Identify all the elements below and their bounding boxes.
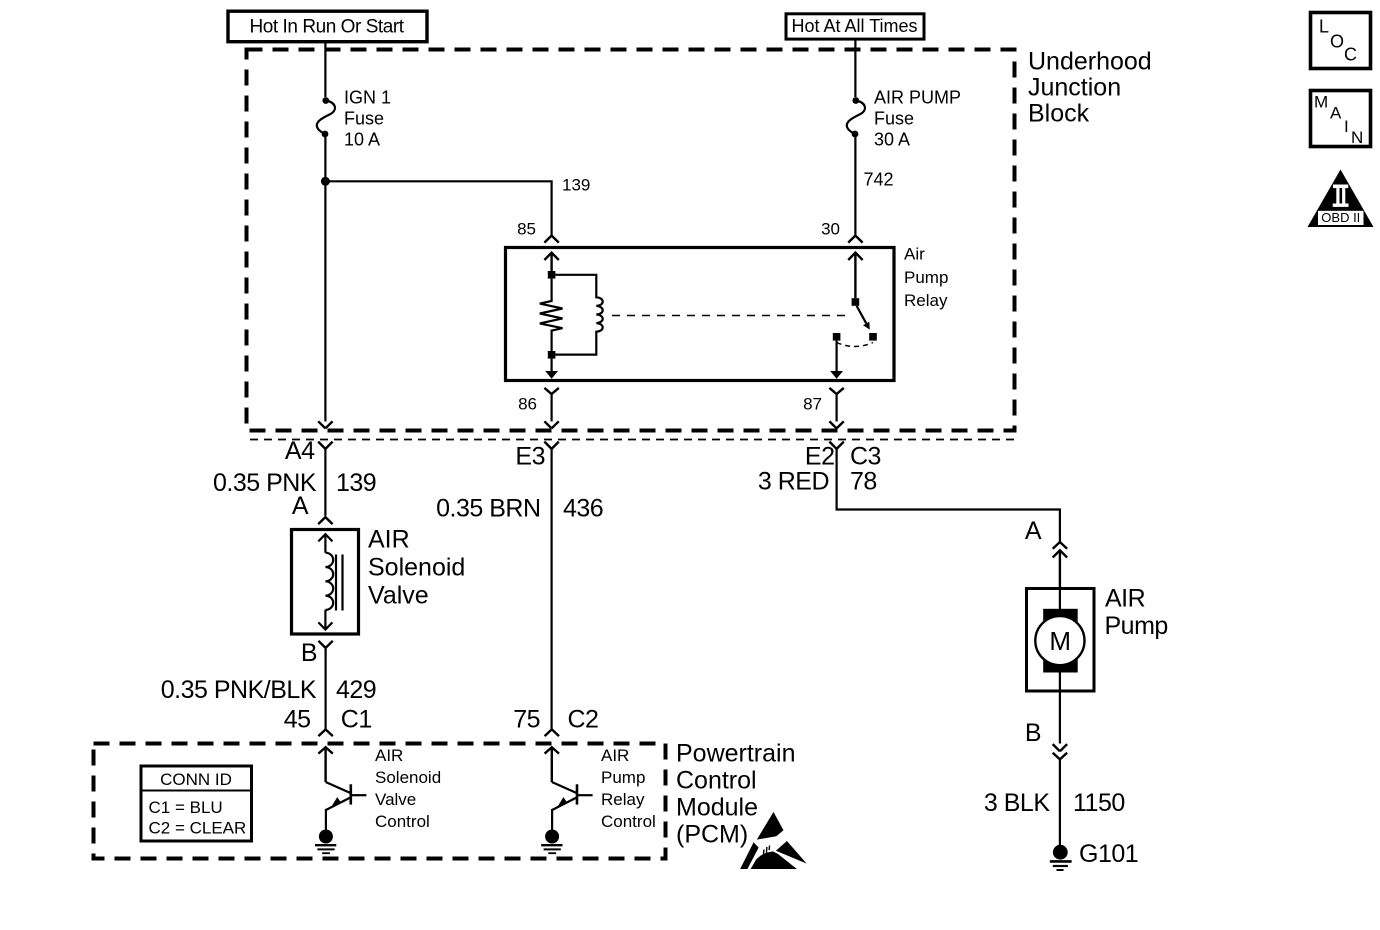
pump A female connector bbox=[1053, 542, 1067, 549]
wire 87 to junction block edge bbox=[835, 394, 837, 422]
relay switch contact node right bbox=[869, 333, 877, 341]
wire 3 RED 78 from E2 to AIR Pump A bbox=[837, 449, 1060, 542]
svg-text:Control: Control bbox=[375, 812, 430, 831]
svg-text:AIR: AIR bbox=[601, 746, 629, 765]
wire 86 to junction block edge bbox=[550, 394, 552, 422]
svg-text:AIR PUMP: AIR PUMP bbox=[874, 88, 961, 108]
svg-text:Powertrain: Powertrain bbox=[676, 740, 796, 768]
svg-text:45: 45 bbox=[284, 706, 311, 734]
svg-text:IGN 1: IGN 1 bbox=[344, 88, 391, 108]
wire from Hot In Run Or Start to IGN 1 fuse bbox=[324, 42, 326, 97]
svg-text:Relay: Relay bbox=[601, 790, 645, 809]
connector C dashed line at junction block bottom bbox=[250, 439, 1014, 441]
svg-text:75: 75 bbox=[513, 706, 540, 734]
terminal E2 female connector bbox=[829, 442, 843, 449]
wire pump B bbox=[1059, 691, 1061, 744]
svg-text:436: 436 bbox=[563, 494, 603, 522]
svg-text:742: 742 bbox=[864, 170, 894, 190]
relay coil winding bbox=[555, 275, 602, 355]
relay switch armature bbox=[857, 306, 870, 330]
wire circuit 742 from fuse to relay terminal 30 bbox=[854, 137, 856, 235]
Air Pump Relay box bbox=[506, 248, 895, 381]
motor M symbol bbox=[1035, 590, 1084, 690]
Powertrain Control Module (PCM) label bbox=[676, 740, 796, 849]
svg-text:Pump: Pump bbox=[601, 768, 645, 787]
svg-text:87: 87 bbox=[803, 395, 822, 414]
svg-text:429: 429 bbox=[336, 676, 376, 704]
svg-text:Module: Module bbox=[676, 794, 758, 822]
svg-text:Pump: Pump bbox=[904, 268, 948, 287]
wire 0.35 PNK/BLK 429 bbox=[325, 648, 327, 729]
svg-text:A: A bbox=[1330, 104, 1342, 123]
relay coil node top bbox=[548, 271, 556, 279]
svg-text:Valve: Valve bbox=[368, 582, 429, 610]
ground at driver Q1 bbox=[315, 830, 336, 854]
svg-text:CONN ID: CONN ID bbox=[160, 770, 232, 789]
terminal 86 female connector bbox=[544, 388, 558, 394]
arrow through junction block border at E2 bbox=[829, 421, 843, 428]
svg-text:78: 78 bbox=[850, 468, 877, 496]
svg-text:B: B bbox=[301, 639, 317, 667]
svg-text:0.35 BRN: 0.35 BRN bbox=[436, 494, 540, 522]
svg-text:86: 86 bbox=[518, 395, 537, 414]
terminal E3 female connector bbox=[544, 442, 558, 449]
terminal 75 female connector at PCM bbox=[545, 729, 559, 736]
svg-text:C1 = BLU: C1 = BLU bbox=[149, 798, 223, 817]
LOC reference box bbox=[1311, 13, 1371, 69]
svg-text:Hot In Run Or Start: Hot In Run Or Start bbox=[250, 17, 405, 38]
wire branch circuit 139 to relay terminal 85 bbox=[325, 181, 551, 235]
svg-text:Control: Control bbox=[601, 812, 656, 831]
svg-text:Solenoid: Solenoid bbox=[375, 768, 441, 787]
svg-text:AIR: AIR bbox=[368, 526, 410, 554]
solenoid pin arrow top bbox=[318, 534, 332, 553]
CONN ID table bbox=[141, 766, 252, 841]
svg-text:I: I bbox=[1344, 117, 1349, 136]
svg-text:Hot At All Times: Hot At All Times bbox=[792, 16, 918, 36]
svg-text:30 A: 30 A bbox=[874, 130, 910, 150]
label AIR Solenoid Valve Control bbox=[375, 746, 441, 831]
svg-text:Valve: Valve bbox=[375, 790, 416, 809]
ESD sensitive device symbol bbox=[740, 812, 807, 869]
terminal 30 female connector bbox=[848, 236, 862, 243]
svg-text:0.35 PNK/BLK: 0.35 PNK/BLK bbox=[161, 676, 317, 704]
svg-text:C2: C2 bbox=[568, 706, 599, 734]
svg-text:Junction: Junction bbox=[1028, 74, 1121, 102]
driver Q1 AIR Solenoid Valve Control bbox=[318, 747, 366, 829]
relay switch contact node 87 bbox=[833, 333, 841, 341]
terminal 45 female connector at PCM bbox=[318, 729, 332, 736]
relay coil node bottom bbox=[548, 351, 556, 359]
arrow through junction block border at E3 bbox=[544, 421, 558, 428]
svg-text:139: 139 bbox=[336, 469, 376, 497]
svg-text:3 RED: 3 RED bbox=[758, 468, 829, 496]
svg-text:30: 30 bbox=[821, 220, 840, 239]
terminal 87 female connector bbox=[829, 388, 843, 394]
svg-text:E2: E2 bbox=[805, 443, 835, 471]
MAIN reference box bbox=[1311, 91, 1371, 147]
svg-text:Relay: Relay bbox=[904, 291, 948, 310]
AIR Solenoid Valve box bbox=[292, 530, 359, 635]
pump B pin arrow down bbox=[1053, 744, 1067, 751]
svg-text:3 BLK: 3 BLK bbox=[984, 789, 1050, 817]
node B+ feed: Hot In Run Or Start box bbox=[228, 11, 427, 42]
svg-text:Fuse: Fuse bbox=[344, 109, 384, 129]
node B+ feed: Hot At All Times box bbox=[786, 14, 924, 39]
terminal 85 female connector bbox=[544, 236, 558, 243]
dashed contact travel arc bbox=[837, 343, 873, 347]
svg-text:(PCM): (PCM) bbox=[676, 821, 748, 849]
svg-text:Underhood: Underhood bbox=[1028, 48, 1152, 76]
AIR Pump box bbox=[1027, 589, 1095, 692]
svg-text:A4: A4 bbox=[285, 437, 315, 465]
pump B female connector bbox=[1053, 753, 1067, 760]
terminal A female connector bbox=[318, 517, 332, 524]
terminal 87 pin arrow out of relay bbox=[830, 341, 843, 379]
driver Q2 AIR Pump Relay Control bbox=[545, 747, 593, 829]
svg-text:AIR: AIR bbox=[1105, 584, 1145, 612]
svg-text:C: C bbox=[1344, 44, 1357, 64]
svg-text:G101: G101 bbox=[1079, 840, 1138, 868]
relay coil suppression resistor bbox=[540, 279, 563, 351]
Underhood Junction Block dashed enclosure bbox=[247, 50, 1015, 431]
fuse AIR PUMP 30 A bbox=[847, 88, 961, 150]
terminal 30 pin arrow into relay bbox=[848, 253, 862, 299]
svg-text:1150: 1150 bbox=[1073, 789, 1125, 817]
Powertrain Control Module dashed enclosure bbox=[94, 744, 666, 859]
terminal 85 pin arrow into relay bbox=[544, 253, 558, 271]
svg-text:C2 = CLEAR: C2 = CLEAR bbox=[149, 819, 247, 838]
terminal 86 pin arrow out of relay bbox=[545, 359, 558, 379]
svg-text:Fuse: Fuse bbox=[874, 109, 914, 129]
svg-text:E3: E3 bbox=[515, 443, 545, 471]
svg-text:L: L bbox=[1319, 17, 1329, 37]
svg-text:M: M bbox=[1314, 93, 1328, 112]
fuse IGN 1 10 A bbox=[317, 88, 391, 150]
svg-text:B: B bbox=[1025, 719, 1041, 747]
relay switch common node bbox=[852, 298, 860, 306]
solenoid winding bbox=[325, 553, 333, 610]
svg-text:Control: Control bbox=[676, 767, 757, 795]
svg-text:139: 139 bbox=[562, 176, 590, 195]
Air Pump Relay label bbox=[904, 245, 948, 311]
svg-text:N: N bbox=[1351, 128, 1363, 147]
svg-text:Pump: Pump bbox=[1105, 612, 1168, 640]
OBD II symbol bbox=[1308, 170, 1374, 228]
ground at driver Q2 bbox=[541, 830, 562, 854]
relay armature dashed actuation line bbox=[612, 315, 852, 317]
svg-text:AIR: AIR bbox=[375, 746, 403, 765]
terminal B female connector bbox=[318, 641, 332, 648]
Underhood Junction Block label bbox=[1028, 48, 1152, 128]
pump A pin arrow bbox=[1053, 550, 1067, 588]
svg-text:85: 85 bbox=[517, 220, 536, 239]
svg-text:C1: C1 bbox=[341, 706, 372, 734]
svg-text:Air: Air bbox=[904, 245, 925, 264]
svg-text:OBD II: OBD II bbox=[1321, 210, 1360, 225]
wire from fuse down to A4 exit bbox=[324, 137, 326, 422]
solenoid core lines bbox=[336, 555, 343, 611]
svg-text:A: A bbox=[292, 492, 309, 520]
AIR Pump label bbox=[1105, 584, 1168, 640]
label AIR Pump Relay Control bbox=[601, 746, 656, 831]
solenoid pin arrow bottom bbox=[318, 610, 332, 630]
svg-text:C3: C3 bbox=[850, 443, 881, 471]
arrow through junction block border at A4 bbox=[318, 421, 332, 428]
svg-text:O: O bbox=[1330, 32, 1344, 52]
svg-text:A: A bbox=[1025, 517, 1042, 545]
terminal A4 female connector bbox=[318, 442, 332, 449]
svg-text:M: M bbox=[1049, 626, 1070, 656]
svg-text:10 A: 10 A bbox=[344, 130, 380, 150]
wire from Hot At All Times to AIR PUMP fuse bbox=[854, 40, 856, 97]
wire 3 BLK 1150 to ground bbox=[1059, 759, 1061, 845]
wire 0.35 BRN 436 from E3 to PCM bbox=[550, 449, 552, 729]
svg-text:Solenoid: Solenoid bbox=[368, 554, 465, 582]
junction node on circuit 139 bbox=[321, 177, 330, 186]
svg-text:Block: Block bbox=[1028, 100, 1090, 128]
ground G101 bbox=[1050, 845, 1072, 870]
wire 0.35 PNK 139 bbox=[324, 449, 326, 516]
AIR Solenoid Valve label bbox=[368, 526, 465, 610]
